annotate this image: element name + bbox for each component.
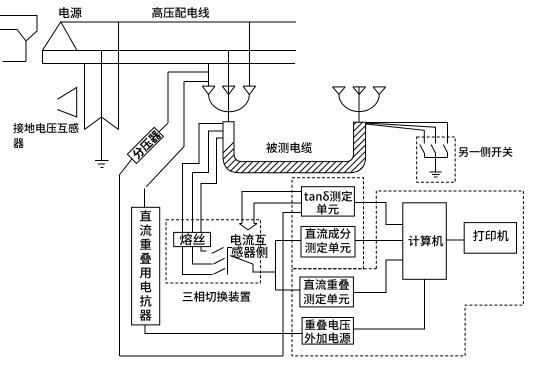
- switch blade far 1: [420, 145, 425, 154]
- wire - bus left edge: [41, 51, 43, 64]
- wire - tanδ input 2 + arrow shaft right: [254, 203, 301, 224]
- label 熔丝: [180, 233, 205, 245]
- wire - phase C drop: [248, 22, 250, 86]
- label 高压配电线: [152, 7, 209, 18]
- wire - fan line 3: [366, 122, 448, 143]
- fuse box 熔丝: [174, 232, 211, 246]
- label tanδ测定单元: [304, 191, 352, 202]
- wire - sheath tap 2: [192, 131, 223, 233]
- switch pole 1: [182, 247, 212, 275]
- wire - phase A drop: [208, 64, 210, 87]
- arrow - far phase c: [373, 86, 386, 88]
- label 重叠电压外加电源: [305, 319, 350, 330]
- arrow - far phase b: [353, 86, 366, 88]
- wire - DC component input / common vertical: [276, 240, 302, 290]
- wire - tanδ unit to computer: [354, 202, 402, 224]
- switch pole 3: [201, 247, 207, 251]
- wire - diagonal into divider: [159, 123, 168, 132]
- ground - far side: [430, 171, 442, 173]
- wire - DC unit to computer: [355, 239, 403, 241]
- wire - tanδ input 1 + arrow shaft left: [242, 191, 301, 223]
- wire - VT phase b / neutral: [101, 51, 103, 161]
- wire - VT phase a: [84, 64, 86, 130]
- wire - bottom loop: [120, 355, 283, 357]
- label 接地电压互感器: [13, 123, 78, 133]
- VT winding chevron: [85, 117, 119, 130]
- switch blade far 3: [443, 145, 448, 154]
- label 打印机: [473, 230, 508, 241]
- power source triangle: [42, 22, 77, 51]
- wire - incoming line symbol top-left: [0, 16, 37, 42]
- wire - fan line 2: [366, 123, 436, 144]
- wire - switch output link: [230, 256, 253, 265]
- wire - sheath tap 1: [182, 123, 223, 232]
- label 直流重叠测定单元: [304, 279, 349, 290]
- arrow - phase B termination: [222, 85, 235, 87]
- label 计算机: [409, 235, 444, 246]
- dashed box (tan delta / DC units): [292, 178, 364, 269]
- wire - tap from phase A to divider: [168, 71, 209, 73]
- switch blade to reactor: [146, 146, 184, 186]
- cable termination arc (near end): [209, 95, 250, 112]
- ground - VT neutral: [95, 160, 109, 162]
- label 电源: [59, 7, 81, 18]
- wire - phase line 1 (top): [61, 21, 296, 23]
- wire - 直流重叠 unit to computer: [353, 260, 402, 293]
- label 直流重叠用电抗器 (vertical): [140, 210, 151, 221]
- transformer delta winding symbol: [57, 87, 76, 117]
- wire - computer to printer: [446, 239, 464, 241]
- far switch bar: [424, 156, 447, 158]
- wire - far conductor: [358, 87, 360, 123]
- box tanδ测定单元: [302, 187, 355, 216]
- label 直流成分测定单元: [305, 228, 351, 239]
- wire - far switch to ground: [435, 157, 437, 171]
- wire - diagonal out of divider: [120, 159, 133, 175]
- wire - tanδ input 3: [283, 212, 302, 356]
- wire - phase B drop / cable conductor: [228, 51, 230, 122]
- label 电流互感器侧: [231, 234, 266, 246]
- dashed boundary (computer group): [292, 191, 523, 356]
- arrow - far phase a: [333, 86, 346, 88]
- cable termination arc (far end): [339, 94, 379, 111]
- arrow - phase A termination: [202, 85, 215, 87]
- reactor box 直流重叠用电抗器: [132, 207, 160, 325]
- box 重叠电压外加电源: [302, 318, 353, 345]
- box 打印机: [464, 223, 516, 254]
- wire - bus top line (phase 2): [42, 50, 296, 52]
- wire - divider down-wire (left long vertical): [119, 175, 121, 356]
- wire - into 直流重叠测定单元: [276, 289, 300, 291]
- wire - VT phase c: [118, 22, 120, 130]
- box 直流成分测定单元: [301, 227, 355, 258]
- wire - into reactor: [143, 188, 145, 207]
- box 直流重叠测定单元: [300, 277, 354, 307]
- hollow arrow head: [239, 223, 242, 225]
- switch contact bar: [227, 247, 229, 274]
- box 计算机: [403, 203, 447, 279]
- label 被测电缆: [266, 142, 312, 153]
- wire - computer to 外加电源: [353, 279, 424, 329]
- wire - bus bottom line (phase 3): [42, 63, 295, 65]
- switch blade far 2: [431, 145, 436, 154]
- voltage divider box (rotated): [127, 127, 163, 163]
- dashed box 另一侧开关: [417, 137, 456, 182]
- switch pole 2: [192, 247, 212, 265]
- wire - tap from phase A to reactor switch: [184, 80, 208, 82]
- label 另一侧开关: [459, 147, 513, 157]
- arrow - phase C termination: [243, 85, 256, 87]
- label 三相切换装置: [183, 291, 251, 302]
- dashed box 三相切换装置: [166, 220, 261, 283]
- wire - reactor bottom out: [145, 325, 302, 334]
- wire - fan line 1: [366, 124, 425, 144]
- wire - sheath tap 3: [201, 138, 223, 233]
